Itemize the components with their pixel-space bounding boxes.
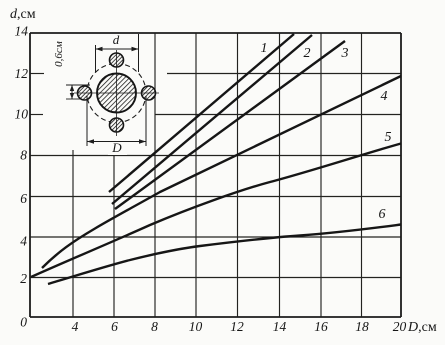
- svg-text:5: 5: [385, 130, 392, 145]
- svg-text:12: 12: [230, 319, 244, 334]
- curve 5: [31, 144, 401, 278]
- svg-text:16: 16: [314, 319, 328, 334]
- svg-text:D,см: D,см: [407, 320, 437, 335]
- y axis labels: [15, 24, 29, 330]
- svg-text:4: 4: [381, 89, 388, 104]
- inset center cross: [74, 92, 159, 94]
- svg-text:D: D: [111, 140, 122, 155]
- svg-text:2: 2: [304, 46, 311, 61]
- svg-text:3: 3: [341, 46, 349, 61]
- curve 3: [115, 41, 345, 209]
- dimension D: line with arrows: [87, 141, 146, 143]
- svg-text:14: 14: [273, 319, 287, 334]
- curve 6: [48, 225, 401, 285]
- svg-text:0: 0: [20, 315, 27, 330]
- inset small conductor top: [110, 53, 124, 67]
- plot border: [30, 33, 401, 317]
- svg-text:12: 12: [15, 66, 29, 81]
- svg-text:6: 6: [111, 319, 118, 334]
- svg-text:20: 20: [393, 319, 407, 334]
- svg-text:0,6см: 0,6см: [53, 41, 65, 67]
- svg-text:4: 4: [72, 319, 79, 334]
- grid horizontal lines: [30, 74, 401, 278]
- dimension D: extension lines: [86, 96, 88, 146]
- inset small conductor right: [142, 86, 156, 100]
- svg-text:10: 10: [189, 319, 203, 334]
- svg-text:6: 6: [20, 191, 27, 206]
- svg-text:d,см: d,см: [10, 7, 36, 22]
- svg-text:8: 8: [151, 319, 158, 334]
- inset whiteout: [45, 36, 152, 146]
- svg-text:14: 14: [15, 24, 29, 39]
- inset small conductor left: [78, 86, 92, 100]
- curve 2: [112, 35, 312, 204]
- x axis labels: [72, 319, 407, 334]
- svg-text:10: 10: [15, 107, 29, 122]
- grid vertical lines: [73, 33, 362, 317]
- inset small conductor bottom: [110, 118, 124, 132]
- svg-text:4: 4: [20, 234, 27, 249]
- dimension d: line with arrows: [96, 48, 139, 50]
- curve 4: [42, 76, 401, 268]
- inset dashed circle D: [87, 64, 146, 123]
- svg-text:6: 6: [379, 207, 386, 222]
- svg-text:2: 2: [20, 271, 27, 286]
- curve 1: [109, 34, 294, 192]
- dimension d: extension lines: [95, 45, 97, 72]
- svg-text:18: 18: [355, 319, 369, 334]
- svg-text:d: d: [113, 32, 120, 47]
- svg-text:1: 1: [261, 41, 268, 56]
- dimension 0,6cm: vertical arrow: [71, 85, 73, 99]
- svg-text:8: 8: [20, 148, 27, 163]
- inset core circle d (hatched): [97, 74, 136, 113]
